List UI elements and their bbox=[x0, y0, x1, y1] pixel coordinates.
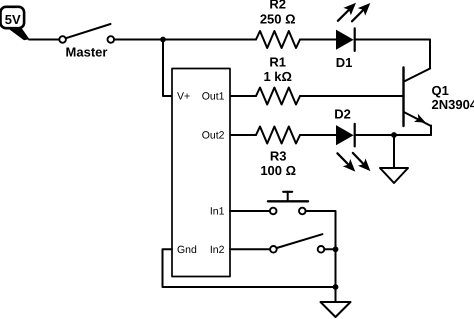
svg-text:R2: R2 bbox=[269, 0, 286, 12]
svg-text:In2: In2 bbox=[210, 244, 225, 256]
LED D1 bbox=[336, 28, 355, 51]
svg-text:In1: In1 bbox=[210, 206, 225, 218]
svg-text:Gnd: Gnd bbox=[177, 244, 197, 256]
svg-text:Out1: Out1 bbox=[202, 91, 225, 103]
wire D2 to Q1 emitter bbox=[355, 134, 431, 136]
push button S1 bbox=[268, 192, 308, 215]
wire R2 to D1 bbox=[300, 39, 336, 41]
svg-text:D1: D1 bbox=[336, 55, 353, 70]
wire bottom rail to ground bbox=[335, 287, 337, 302]
transistor Q1 bbox=[404, 68, 432, 136]
wire Out1 pin to R1 bbox=[230, 95, 256, 97]
wire Out2 pin to R3 bbox=[230, 134, 256, 136]
wire R3 to D2 bbox=[300, 134, 336, 136]
svg-text:D2: D2 bbox=[334, 106, 351, 121]
wire 5V flag to Master switch bbox=[29, 39, 59, 41]
wire In2 pin to switch bbox=[230, 248, 270, 250]
wire R1 to Q1 base bbox=[300, 95, 403, 97]
svg-text:R1: R1 bbox=[269, 55, 286, 70]
junction dot V+ tap bbox=[160, 37, 166, 43]
resistor R1 bbox=[256, 88, 300, 105]
power flag 5V bbox=[1, 7, 30, 41]
wire Gnd pin to bottom rail bbox=[163, 249, 336, 287]
LED D1 light arrows bbox=[338, 3, 370, 22]
svg-text:5V: 5V bbox=[5, 12, 21, 27]
svg-text:V+: V+ bbox=[177, 91, 190, 103]
svg-text:R3: R3 bbox=[270, 149, 287, 164]
ground bottom bbox=[321, 302, 351, 317]
wire V+ tap down to V+ pin bbox=[163, 40, 172, 97]
switch Master bbox=[59, 24, 114, 43]
junction dot In2 bus bbox=[333, 246, 339, 252]
IC U1 bbox=[172, 69, 230, 277]
wire Master switch to R2 (top rail) bbox=[114, 39, 256, 41]
svg-text:2N3904: 2N3904 bbox=[432, 97, 474, 112]
wire In1 pin to push button bbox=[230, 210, 270, 212]
LED D2 bbox=[336, 124, 355, 146]
ground right bbox=[380, 168, 408, 183]
wire D1 to collector corner bbox=[355, 40, 430, 69]
wire emitter node to ground bbox=[393, 135, 395, 168]
resistor R3 bbox=[256, 127, 300, 144]
wire push button to right bus bbox=[306, 211, 336, 287]
junction dot emitter node bbox=[391, 132, 397, 138]
svg-text:Out2: Out2 bbox=[202, 130, 225, 142]
svg-text:100 Ω: 100 Ω bbox=[260, 163, 296, 178]
junction dot bottom rail bbox=[333, 284, 339, 290]
LED D2 light arrows bbox=[337, 153, 370, 172]
svg-text:Master: Master bbox=[66, 45, 108, 60]
svg-text:1 kΩ: 1 kΩ bbox=[263, 69, 292, 84]
svg-text:250 Ω: 250 Ω bbox=[260, 12, 296, 27]
wire switch to right bus bbox=[324, 248, 335, 250]
switch on In2 bbox=[270, 234, 324, 252]
resistor R2 bbox=[256, 31, 300, 48]
